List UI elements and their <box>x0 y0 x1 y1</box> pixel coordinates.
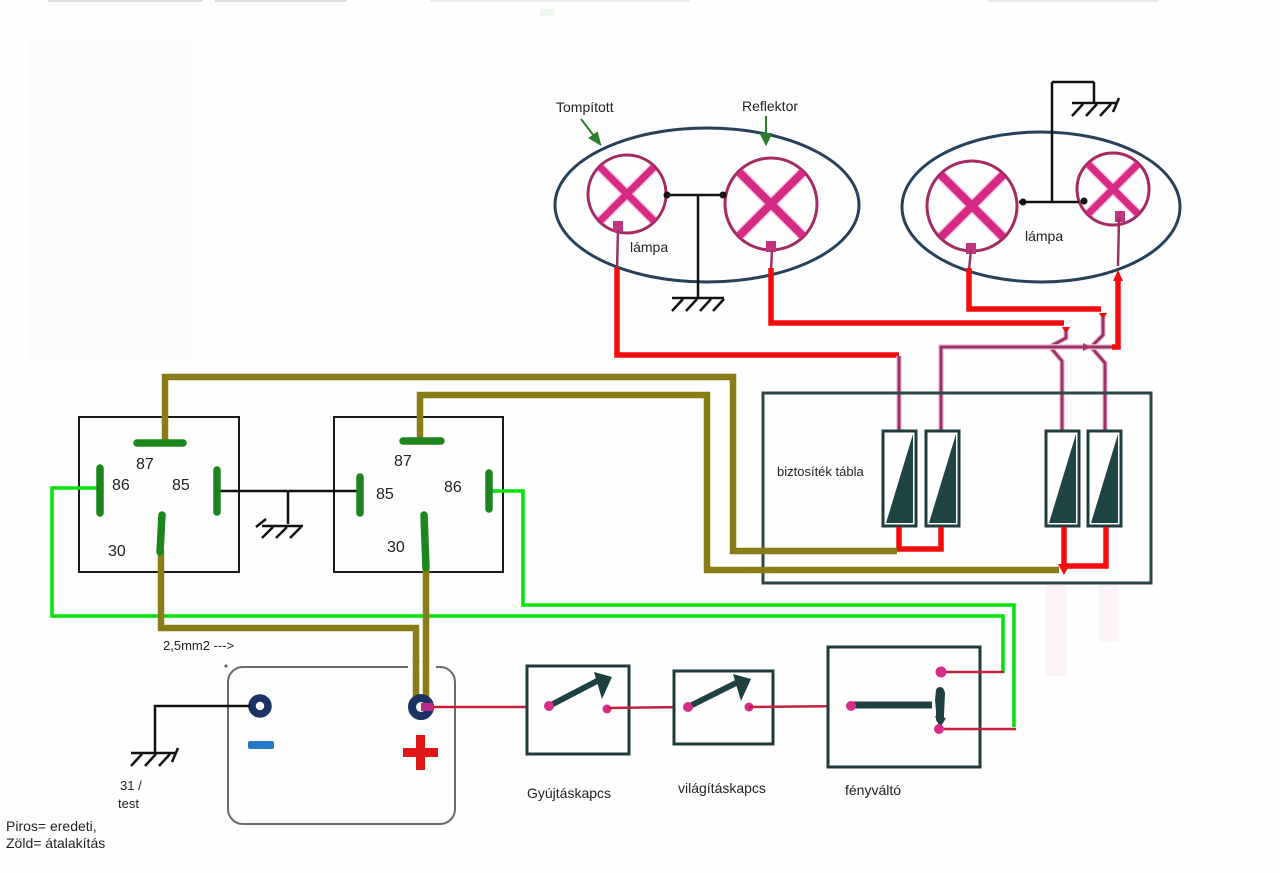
switch1 lever <box>551 680 599 705</box>
switch2 box világításkapcs <box>674 671 773 744</box>
faint scan wash upper left <box>28 40 198 360</box>
arrow from Tompított label <box>581 119 600 144</box>
wire red U fuse1-fuse2 <box>899 527 941 549</box>
wire black battery minus to ground <box>155 706 250 752</box>
relay2 pin 85 <box>356 477 364 513</box>
fuse box <box>763 393 1151 583</box>
relay 2 box <box>334 417 503 572</box>
ground right lamp <box>1072 98 1119 116</box>
junction dot right lamp right <box>1081 198 1088 205</box>
relay1 pin 86 <box>96 468 104 513</box>
left headlamp housing ellipse <box>555 128 859 282</box>
relay1 pin 87 <box>137 439 183 447</box>
svg-text:30: 30 <box>108 543 126 560</box>
wire green from relay2-86 to fényváltó bottom contact <box>492 491 1014 727</box>
wire olive relay1-30 to battery plus <box>161 550 416 700</box>
magenta arrow left on bus <box>1047 343 1055 351</box>
svg-text:86: 86 <box>444 479 462 496</box>
wire red switch2 to switch3 <box>749 706 850 707</box>
wire red R2 down to magenta bus <box>1112 277 1118 347</box>
relay1 labels <box>108 456 190 560</box>
arrow from Reflektor label <box>761 116 771 144</box>
wire red L2 toward fuse3 <box>771 268 1064 323</box>
svg-text:31 /: 31 / <box>120 778 142 793</box>
svg-text:87: 87 <box>394 453 412 470</box>
wire olive relay1-87 to fuse1/2 <box>165 377 897 551</box>
fuse F1 <box>883 431 916 532</box>
switch3 box fényváltó <box>828 647 980 767</box>
battery minus sign <box>248 741 274 749</box>
red arrow end L2 <box>1062 327 1070 334</box>
junction dot right lamp left <box>1020 199 1027 206</box>
svg-text:87: 87 <box>136 456 154 473</box>
svg-text:Reflektor: Reflektor <box>742 98 798 114</box>
right headlamp housing ellipse <box>902 132 1180 282</box>
switch1 contact dots <box>544 701 554 711</box>
switch3 top contact dot <box>936 667 947 678</box>
svg-text:lámpa: lámpa <box>1025 228 1063 244</box>
switch3 rotor blob <box>935 689 945 723</box>
switch2 lever <box>690 682 738 706</box>
switch3 lever bar <box>853 702 932 709</box>
fuse F2 <box>926 431 959 533</box>
scan artifact strip top <box>48 0 1158 16</box>
magenta arrow right on bus <box>1083 343 1091 351</box>
ground 31/test <box>131 748 178 766</box>
battery minus terminal <box>252 698 268 714</box>
wire magenta stub bulb L1 <box>617 230 618 270</box>
svg-text:86: 86 <box>112 477 130 494</box>
wire magenta fuse1 drop <box>896 356 902 432</box>
svg-text:Gyújtáskapcs: Gyújtáskapcs <box>527 785 611 801</box>
svg-text:85: 85 <box>172 477 190 494</box>
fuse F4 <box>1088 431 1121 533</box>
switch3 bottom contact dot <box>934 724 944 734</box>
ground left lamp <box>672 298 724 311</box>
wire black relay1-85 to relay2-85 <box>219 490 358 493</box>
junction dot left <box>664 192 671 199</box>
relay 1 box <box>79 417 239 572</box>
red arrow down at fuse3 <box>1058 564 1070 575</box>
relay2 pin 86 <box>485 473 493 509</box>
wire magenta stub bulb L2 <box>771 250 772 270</box>
fuse F3 <box>1046 431 1079 533</box>
bulb R1 tompított (right lamp left) <box>927 161 1017 254</box>
svg-text:Zöld= átalakítás: Zöld= átalakítás <box>6 835 105 851</box>
wire green from relay1-86 to fényváltó top contact <box>52 488 1003 673</box>
svg-text:2,5mm2 --->: 2,5mm2 ---> <box>163 638 234 653</box>
red arrow end R1 <box>1099 313 1107 320</box>
bulb R2 reflektor (right lamp right) <box>1077 153 1149 225</box>
svg-text:lámpa: lámpa <box>630 239 668 255</box>
svg-text:Piros= eredeti,: Piros= eredeti, <box>6 818 97 834</box>
wire black between right lamp bulbs <box>1019 82 1094 202</box>
svg-text:fényváltó: fényváltó <box>845 782 901 798</box>
svg-text:biztosíték tábla: biztosíték tábla <box>777 464 864 479</box>
wire red switch1 to switch2 <box>607 707 688 708</box>
relay1 pin 85 <box>213 470 221 512</box>
wire magenta bus to fuse2 <box>941 347 1112 432</box>
white gap for olive wires over battery border <box>408 663 436 673</box>
wire red battery plus to switch1 <box>432 706 548 709</box>
wire red fényváltó bottom to green <box>944 728 1016 731</box>
battery plus terminal <box>412 698 430 716</box>
relay2 pin 30 <box>424 515 426 568</box>
svg-text:test: test <box>118 796 139 811</box>
battery plus sign <box>403 735 438 770</box>
wire magenta zigzag into fuse4 <box>1092 317 1105 432</box>
bulb L2 reflektor (left lamp right) <box>725 158 817 252</box>
relay2 labels <box>376 453 462 556</box>
junction dot right <box>720 192 727 199</box>
ground between relays <box>256 491 303 538</box>
faint pink wash below fuse box <box>1046 584 1066 676</box>
svg-text:Tompított: Tompított <box>556 99 614 115</box>
switch3 left contact dot <box>846 701 856 711</box>
battery corner dot <box>225 665 228 668</box>
wire red fényváltó top to green <box>946 671 1004 674</box>
wire magenta stub bulb R2 <box>1118 218 1119 266</box>
red arrow up R2 <box>1113 270 1123 281</box>
wire olive relay2-30 to battery plus <box>423 566 430 703</box>
svg-text:85: 85 <box>376 486 394 503</box>
wire red U fuse3-fuse4 <box>1064 527 1106 566</box>
wire olive relay2-87 to fuse3/4 <box>420 395 1059 570</box>
wire red L1 to fuse1 <box>617 268 899 355</box>
wire red R1 toward fuse4 <box>969 268 1101 309</box>
magenta blob in plus terminal <box>421 703 433 711</box>
svg-text:világításkapcs: világításkapcs <box>678 780 766 796</box>
relay2 pin 87 <box>403 437 441 445</box>
relay1 pin 30 <box>160 515 162 552</box>
wire magenta zigzag into fuse3 <box>1051 331 1066 432</box>
switch2 contact dots <box>683 702 693 712</box>
battery box <box>228 667 455 824</box>
wire olive into plus (redraw over border) <box>413 660 420 700</box>
bulb L1 tompított (left lamp left) <box>588 155 666 233</box>
switch1 box Gyújtáskapcs <box>527 666 629 754</box>
wire magenta stub bulb R1 <box>969 250 971 270</box>
svg-text:30: 30 <box>387 539 405 556</box>
wire black between left lamp bulbs <box>666 195 725 297</box>
